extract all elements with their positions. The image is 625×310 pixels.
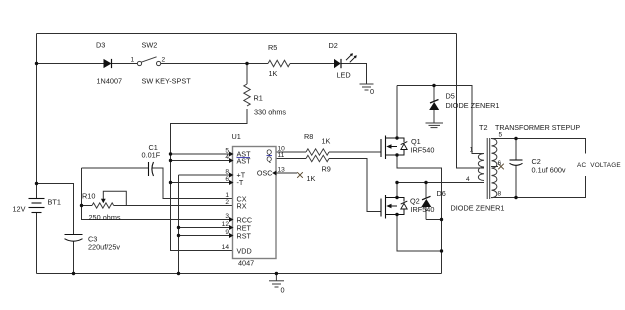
node battery top rail [35, 62, 38, 65]
svg-text:IRF540: IRF540 [411, 205, 435, 214]
resistor R1 330 ohms [244, 84, 250, 106]
wire LED cathode to ground drop [341, 64, 367, 84]
svg-text:250 ohms: 250 ohms [89, 213, 121, 222]
wire R1 bottom to bus [171, 109, 248, 154]
battery BT1 12V [29, 199, 45, 213]
wire C1/R10 net top side [82, 167, 149, 169]
svg-text:BT1: BT1 [48, 198, 61, 207]
wire pin8 +T [179, 174, 230, 176]
ground (LED) [360, 84, 374, 90]
svg-text:T2: T2 [479, 123, 488, 132]
svg-text:220uf/25v: 220uf/25v [88, 243, 120, 252]
transformer T2 secondary winding [492, 139, 497, 198]
svg-text:13: 13 [278, 167, 286, 174]
svg-text:DIODE ZENER1: DIODE ZENER1 [446, 101, 500, 110]
node Q2 drain [395, 196, 398, 199]
wire C1 right to pin1 CX [153, 168, 233, 199]
wire pin4 row to transformer [397, 182, 484, 184]
wire left border (battery rail) [36, 34, 38, 274]
node ground rail center [275, 272, 278, 275]
svg-text:1: 1 [225, 192, 229, 199]
wire Q2 source down [397, 215, 442, 252]
svg-text:6: 6 [498, 160, 502, 167]
diode zener D5 [429, 86, 439, 123]
diode D3 1N4007 [104, 59, 112, 68]
svg-text:4: 4 [225, 154, 229, 161]
svg-text:0.01F: 0.01F [142, 151, 161, 160]
node Q2 source [395, 213, 398, 216]
wire secondary pin8 to output bottom [491, 176, 586, 198]
wire R5 to LED anode [290, 63, 334, 65]
wire R10 wiper loop [103, 191, 126, 205]
svg-text:RST: RST [237, 232, 252, 241]
svg-text:12V: 12V [13, 205, 26, 214]
svg-text:11: 11 [278, 152, 285, 159]
wire R8 to Q1 gate [329, 151, 381, 153]
node D6 top [424, 181, 427, 184]
svg-text:1: 1 [470, 147, 474, 154]
wire SW2 pin2 to R5 (through node) [161, 63, 268, 65]
wire secondary pin5 to output top [491, 139, 586, 154]
node battery plus branch [35, 182, 38, 185]
ground (main rail) [269, 274, 284, 288]
svg-text:DIODE ZENER1: DIODE ZENER1 [451, 204, 505, 213]
svg-text:0: 0 [281, 286, 285, 295]
resistor R8 1K [306, 149, 329, 155]
pin numbers U1 right [278, 146, 286, 174]
svg-text:R10: R10 [82, 192, 95, 201]
svg-text:1K: 1K [322, 137, 331, 146]
node D6 bottom [440, 218, 443, 221]
transformer T2 core [487, 138, 490, 199]
wire D3 cathode to SW2 pin1 [112, 63, 137, 65]
potentiometer R10 250 ohms [92, 199, 114, 208]
svg-text:4047: 4047 [238, 259, 254, 268]
pin numbers U1 left [222, 148, 230, 252]
node bus pin5 [169, 152, 172, 155]
LED D2 [334, 53, 357, 68]
wire pin11 Q to R9 [276, 158, 306, 160]
node C2 top [514, 137, 517, 140]
wire pin4 AST [171, 160, 230, 162]
svg-text:VDD: VDD [237, 247, 252, 256]
svg-text:TRANSFORMER STEPUP: TRANSFORMER STEPUP [495, 124, 580, 132]
wire ground bus (pins 8,12,9) [178, 175, 180, 274]
wire top border [37, 33, 457, 35]
svg-text:D6: D6 [437, 189, 446, 198]
svg-text:2: 2 [162, 57, 166, 64]
pin arrows U1 inputs [229, 152, 277, 239]
wire R10 stub [82, 205, 93, 207]
svg-text:2: 2 [225, 199, 229, 206]
op-amp U1 box (IC 4047) [233, 147, 277, 259]
node Q2 drain riser / pin4 wire [395, 181, 398, 184]
node gnd bus pin9 [177, 234, 180, 237]
svg-text:R8: R8 [304, 132, 313, 141]
ground (D5) [426, 123, 444, 128]
wire R1 top [246, 64, 248, 85]
switch SW2 SPST [137, 57, 160, 66]
wire main +12V row segment to D3 [37, 63, 104, 65]
svg-text:9: 9 [225, 229, 229, 236]
wire pin13 OSC no-connect [276, 172, 297, 174]
transistor Q2 IRF540 [381, 195, 407, 219]
svg-text:0.1uf 600v: 0.1uf 600v [532, 166, 566, 175]
no-connect X (pin13 OSC) [297, 172, 303, 178]
svg-text:R1: R1 [254, 94, 263, 103]
wire pin10 Q to R8 [276, 151, 306, 153]
wire R9 to Q2 gate [329, 159, 381, 212]
wire battery to C3 branch [37, 184, 74, 235]
svg-text:U1: U1 [232, 132, 241, 141]
svg-text:0: 0 [370, 87, 374, 96]
svg-text:IRF540: IRF540 [411, 146, 435, 155]
node C2 bottom [514, 196, 517, 199]
capacitor C1 0.01F [149, 162, 154, 176]
wire top node row to transformer pin1 riser [397, 86, 484, 154]
capacitor C2 0.1uf 600v [510, 160, 523, 165]
diode zener D6 [421, 183, 431, 220]
node gnd bus rail [177, 272, 180, 275]
svg-text:SW2: SW2 [142, 41, 158, 50]
wire bus VDD (pins 5,4,6,14) [171, 154, 233, 251]
wire C2 top [515, 139, 517, 160]
wire R10 output to pin2 RX [114, 205, 233, 207]
wire D6 bottom to ground column [426, 219, 442, 221]
wire Q2 drain riser to pin4 row [396, 183, 398, 198]
svg-text:8: 8 [498, 191, 502, 198]
svg-text:1K: 1K [307, 174, 316, 183]
resistor R5 1K [268, 60, 290, 66]
svg-text:AC VOLTAGE: AC VOLTAGE [577, 162, 621, 169]
svg-text:-T: -T [237, 178, 244, 187]
svg-text:R9: R9 [322, 165, 331, 174]
wire pin5 AST [171, 153, 230, 155]
svg-text:1: 1 [131, 57, 135, 64]
wire C2 bottom [515, 166, 517, 198]
svg-text:4: 4 [466, 176, 470, 183]
svg-text:1N4007: 1N4007 [97, 77, 123, 86]
no-connect X (transformer pin6) [498, 164, 504, 170]
wire pin12 RET [179, 227, 230, 229]
node Q1 source [395, 153, 398, 156]
node gnd bus pin12 [177, 226, 180, 229]
svg-text:D3: D3 [96, 41, 105, 50]
wire right border down to transformer center tap [457, 34, 485, 169]
svg-text:12: 12 [222, 221, 230, 228]
capacitor C3 220uf/25v [65, 235, 83, 242]
node C3 rail [72, 272, 75, 275]
wire Q1 drain riser to top node [396, 86, 398, 139]
node bus pin6 [169, 181, 172, 184]
svg-text:OSC: OSC [257, 169, 273, 178]
svg-text:6: 6 [225, 176, 229, 183]
svg-text:1K: 1K [269, 69, 278, 78]
resistor R9 1K [306, 155, 329, 161]
svg-text:R5: R5 [268, 43, 277, 52]
svg-text:330 ohms: 330 ohms [254, 108, 286, 117]
wire pin9 RST [179, 235, 230, 237]
wire Q1 source to ground column [397, 155, 442, 274]
svg-text:5: 5 [499, 132, 503, 139]
transformer T2 primary winding [478, 154, 484, 181]
wire R10 left vertical to pin3 RCC [82, 168, 230, 220]
U1 pin names [237, 148, 273, 256]
wire pin6 -T [171, 182, 230, 184]
wire bottom ground rail [37, 273, 442, 275]
svg-text:8: 8 [225, 169, 229, 176]
node D5 top [432, 84, 435, 87]
svg-text:LED: LED [337, 71, 351, 80]
node Q1 drain [395, 136, 398, 139]
svg-text:RX: RX [237, 202, 247, 211]
node bus pin4 [169, 159, 172, 162]
wire C3 bottom to rail [73, 242, 75, 274]
svg-text:D5: D5 [446, 92, 455, 101]
node Q2 source gnd [440, 249, 443, 252]
node R1/R5 [245, 62, 248, 65]
node R10 left [80, 204, 83, 207]
transistor Q1 IRF540 [381, 136, 407, 160]
svg-text:3: 3 [225, 213, 229, 220]
svg-text:SW KEY-SPST: SW KEY-SPST [142, 77, 192, 86]
svg-text:14: 14 [222, 244, 230, 251]
svg-text:D2: D2 [329, 41, 338, 50]
wire secondary pin6 stub [491, 166, 498, 168]
